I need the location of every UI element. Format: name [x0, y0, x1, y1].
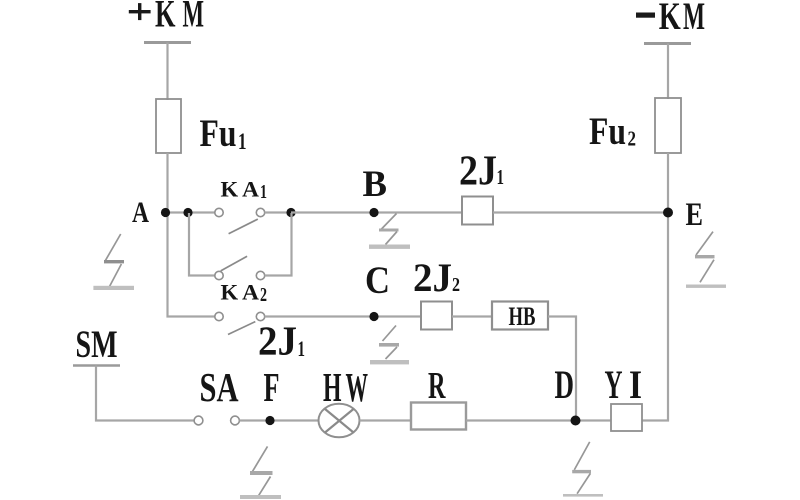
- break symbol below B: [369, 214, 410, 249]
- node A2 junction dot: [183, 208, 192, 217]
- svg-text:K: K: [659, 0, 681, 38]
- svg-text:K: K: [221, 176, 239, 201]
- wire resistor R to node D and coil YI: [466, 419, 611, 421]
- svg-text:SM: SM: [76, 323, 118, 366]
- svg-text:R: R: [428, 365, 446, 407]
- wire fuse Fu1 down to node A and to row 3 corner: [168, 153, 215, 317]
- fuse Fu2: [655, 98, 681, 153]
- svg-text:2: 2: [260, 284, 267, 306]
- contact 2J1 (row 3): [215, 312, 265, 334]
- node B: [369, 208, 378, 217]
- svg-text:2J: 2J: [258, 318, 297, 364]
- fuse Fu1: [156, 99, 181, 153]
- svg-text:A: A: [132, 196, 149, 229]
- relay coil 2J1: [462, 197, 493, 225]
- svg-text:2J: 2J: [459, 149, 497, 195]
- svg-text:2: 2: [628, 127, 637, 151]
- wire SA to lamp HW: [240, 419, 320, 421]
- junction dot right of KA1: [286, 208, 295, 217]
- svg-text:1: 1: [238, 129, 247, 154]
- lamp HW: [319, 404, 360, 438]
- svg-text:H: H: [323, 364, 342, 410]
- svg-text:C: C: [365, 259, 390, 302]
- terminal bar SM: [73, 364, 120, 366]
- wire fuse Fu2 down through node E to YI corner: [642, 153, 668, 421]
- wire from +KM bar to fuse Fu1: [166, 43, 168, 101]
- terminal bar -KM: [644, 42, 691, 45]
- svg-text:K: K: [155, 0, 176, 35]
- relay coil 2J2: [421, 302, 452, 330]
- wire lamp HW to resistor R: [360, 419, 412, 421]
- device HB: [492, 302, 548, 330]
- label -KM: [636, 13, 655, 18]
- contact KA2: [215, 256, 265, 279]
- wire junction to relay coil 2J1: [291, 211, 462, 213]
- break symbol below F: [240, 446, 281, 499]
- wire KA1 to junction: [265, 211, 294, 213]
- break symbol below D: [563, 442, 603, 497]
- svg-text:HB: HB: [509, 301, 536, 331]
- svg-text:A: A: [242, 176, 259, 201]
- svg-text:Fu: Fu: [200, 112, 237, 155]
- contact KA1: [215, 208, 265, 234]
- node C: [369, 312, 378, 321]
- switch SA: [194, 416, 239, 425]
- svg-text:M: M: [183, 0, 205, 35]
- break symbol below E: [686, 232, 726, 288]
- wire coil 2J2 to HB: [452, 315, 492, 317]
- svg-text:2J: 2J: [413, 255, 452, 300]
- svg-text:1: 1: [497, 165, 505, 189]
- svg-text:Y: Y: [605, 362, 623, 407]
- svg-text:1: 1: [298, 336, 306, 361]
- node D: [571, 416, 581, 426]
- node F: [265, 416, 274, 425]
- svg-text:1: 1: [260, 181, 267, 203]
- node A: [161, 208, 170, 217]
- wire 2J1 contact to coil 2J2: [265, 315, 422, 317]
- wire HB down to node D: [548, 317, 576, 421]
- resistor R: [411, 403, 466, 430]
- svg-text:D: D: [555, 362, 575, 407]
- svg-text:B: B: [363, 164, 388, 205]
- coil YI: [611, 404, 642, 431]
- label +KM: [129, 10, 151, 13]
- svg-text:K: K: [221, 280, 239, 305]
- break symbol below C: [370, 326, 409, 365]
- svg-text:E: E: [686, 197, 704, 233]
- svg-text:2: 2: [452, 274, 460, 296]
- terminal bar +KM: [144, 41, 191, 44]
- svg-text:Fu: Fu: [589, 110, 626, 153]
- node E: [663, 208, 673, 218]
- wire SM down and right to switch SA: [96, 366, 195, 421]
- wire node A to contact KA1: [166, 211, 215, 213]
- wire coil 2J1 to node E: [493, 211, 668, 213]
- svg-text:M: M: [683, 0, 705, 38]
- break symbol below A: [93, 234, 134, 290]
- svg-text:A: A: [242, 280, 259, 305]
- wire from -KM bar to fuse Fu2: [667, 44, 669, 100]
- wire branch down-left to contact KA2: [189, 213, 215, 276]
- svg-text:W: W: [346, 364, 369, 410]
- svg-text:I: I: [629, 362, 642, 407]
- wire branch KA2 up to main row: [265, 213, 292, 276]
- svg-text:SA: SA: [200, 364, 239, 410]
- svg-text:F: F: [264, 364, 280, 410]
